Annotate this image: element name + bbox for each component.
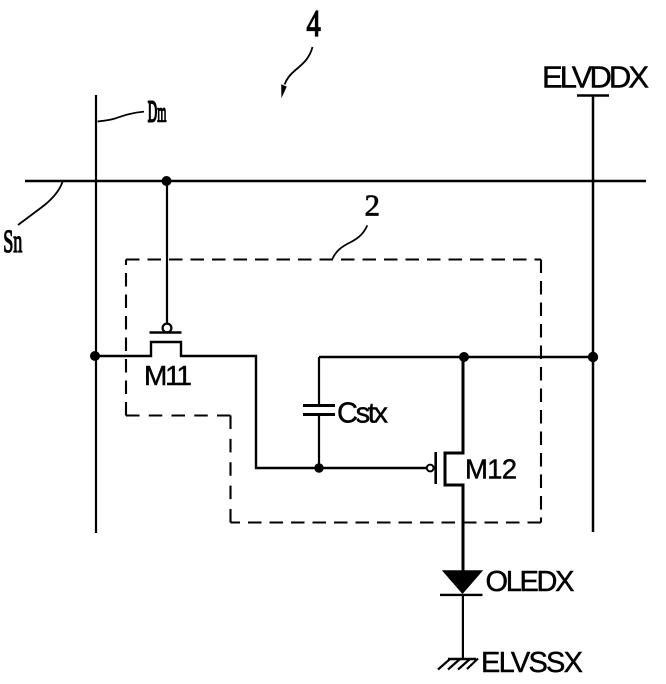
svg-text:M11: M11 <box>144 360 192 391</box>
svg-text:Sn: Sn <box>3 222 22 259</box>
svg-text:Dm: Dm <box>148 96 167 130</box>
svg-text:ELVSSX: ELVSSX <box>481 647 583 679</box>
svg-text:M12: M12 <box>465 454 517 485</box>
svg-text:4: 4 <box>307 3 321 45</box>
svg-text:OLEDX: OLEDX <box>486 566 575 598</box>
svg-text:Cstx: Cstx <box>337 398 389 430</box>
svg-text:2: 2 <box>365 188 381 223</box>
svg-text:ELVDDX: ELVDDX <box>542 60 649 95</box>
